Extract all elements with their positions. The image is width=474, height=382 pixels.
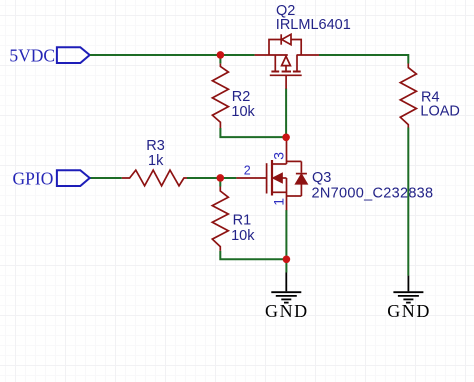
wire R4 to GND — [407, 128, 409, 276]
svg-text:LOAD: LOAD — [420, 104, 460, 120]
wire R1 top stub — [219, 178, 221, 187]
port 5VDC symbol — [57, 47, 90, 63]
svg-text:10k: 10k — [231, 104, 255, 120]
junction node Q3 source — [283, 255, 291, 263]
svg-text:10k: 10k — [231, 228, 255, 244]
wire R2 bottom to node A — [220, 128, 286, 137]
transistor Q3 N-MOSFET — [236, 138, 307, 211]
resistor R3 — [122, 170, 187, 186]
svg-text:IRLML6401: IRLML6401 — [276, 17, 351, 33]
wire source node to GND — [285, 259, 287, 272]
resistor R1 — [212, 187, 228, 251]
svg-text:R2: R2 — [232, 89, 251, 105]
junction node A Q2 gate — [282, 134, 290, 142]
wire R1 bottom to source node — [220, 251, 286, 260]
svg-text:R1: R1 — [233, 213, 252, 229]
wire GPIO to R3 — [90, 177, 122, 179]
svg-text:R3: R3 — [146, 138, 165, 154]
transistor Q2 P-MOSFET — [255, 34, 319, 89]
junction node at 5VDC rail — [217, 51, 225, 59]
resistor R2 — [212, 64, 228, 128]
svg-text:GND: GND — [265, 301, 309, 321]
svg-text:GPIO: GPIO — [13, 169, 54, 189]
resistor R4 — [400, 64, 416, 128]
svg-text:1: 1 — [271, 198, 287, 206]
wire Q2 gate to node A — [285, 89, 287, 138]
svg-text:3: 3 — [271, 152, 287, 160]
svg-text:Q3: Q3 — [312, 170, 331, 186]
svg-text:5VDC: 5VDC — [9, 45, 55, 65]
svg-text:2: 2 — [244, 163, 251, 177]
wire R2 top stub — [219, 55, 221, 64]
wire Q2 drain to R4 — [319, 55, 408, 64]
wire 5VDC to Q2 — [90, 54, 255, 56]
wire R3 to Q3 gate — [187, 177, 236, 179]
port GPIO symbol — [57, 170, 90, 186]
junction node at gate of Q3 rail — [217, 174, 225, 182]
wire Q3 source down — [285, 210, 287, 259]
ground left — [271, 273, 301, 303]
svg-text:GND: GND — [387, 301, 431, 321]
svg-text:2N7000_C232838: 2N7000_C232838 — [312, 185, 434, 201]
ground right — [393, 276, 423, 303]
svg-text:1k: 1k — [148, 153, 164, 169]
